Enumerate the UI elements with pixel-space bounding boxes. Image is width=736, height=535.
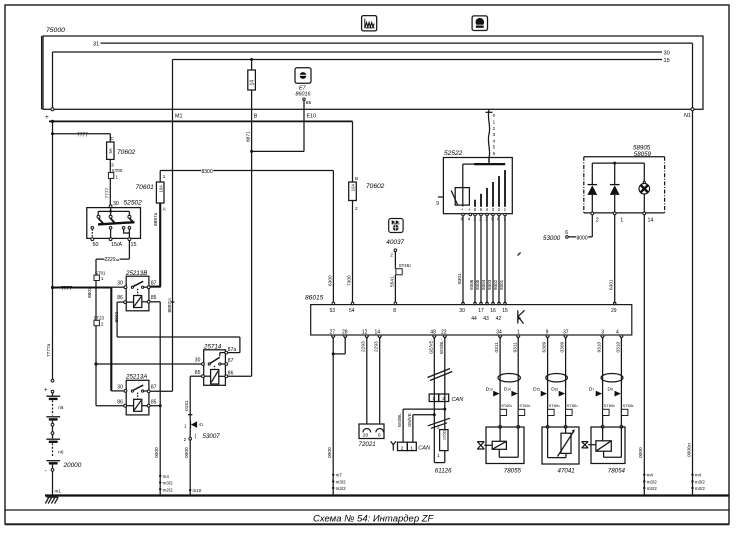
svg-text:87a: 87a	[228, 347, 237, 353]
svg-text:m3/2: m3/2	[647, 479, 658, 484]
svg-text:8871: 8871	[246, 131, 252, 142]
svg-text:m4: m4	[163, 474, 170, 479]
svg-text:27: 27	[330, 329, 336, 335]
svg-text:86: 86	[117, 295, 123, 301]
pins 50 15/A 15 of 52502	[91, 238, 137, 248]
twisted pair mark (upper)	[428, 369, 453, 381]
svg-text:ST695: ST695	[604, 403, 615, 408]
node B	[250, 58, 258, 119]
svg-text:N1: N1	[684, 113, 691, 119]
harness box 75000	[42, 27, 703, 109]
node E10	[252, 100, 316, 151]
svg-text:29: 29	[611, 308, 617, 314]
junction 8802 node	[94, 362, 97, 365]
svg-text:m1: m1	[55, 489, 62, 494]
connector ST46/2	[396, 263, 411, 275]
svg-text:0000: 0000	[184, 447, 190, 458]
diode 53007	[184, 421, 221, 442]
svg-text:WS/BL-: WS/BL-	[439, 338, 444, 354]
wire 9311 (pin 1)	[512, 338, 518, 426]
ECU bottom pin connector arrows	[331, 336, 623, 339]
svg-text:72021: 72021	[359, 441, 376, 448]
svg-text:-: -	[45, 468, 47, 474]
svg-text:2: 2	[390, 253, 393, 258]
svg-text:22: 22	[441, 329, 447, 335]
svg-text:30: 30	[117, 281, 123, 287]
relay E7 86016	[295, 68, 311, 98]
svg-text:87: 87	[228, 358, 234, 364]
svg-text:0311: 0311	[494, 342, 500, 353]
ECU top pin labels 53 54 8 30 17 16 15 44 43 42 29	[330, 308, 617, 322]
wire 8301	[457, 216, 463, 303]
twisted pair mark (lower)	[428, 418, 450, 428]
svg-text:7777a: 7777a	[46, 343, 52, 357]
svg-text:m10: m10	[193, 488, 202, 493]
wire 5541 to ECU pin 8	[389, 275, 395, 304]
antenna symbol	[391, 441, 396, 450]
retarder switch 52522	[436, 150, 512, 214]
svg-text:9304: 9304	[481, 279, 486, 290]
svg-text:m2/2: m2/2	[336, 486, 347, 491]
svg-text:8: 8	[393, 308, 396, 314]
svg-text:m3/2: m3/2	[695, 479, 706, 484]
52522 bottom terminals	[461, 213, 507, 221]
svg-text:120Ω: 120Ω	[442, 430, 447, 440]
svg-text:CAN: CAN	[418, 445, 431, 451]
svg-text:6: 6	[565, 230, 568, 236]
svg-text:15: 15	[131, 242, 137, 248]
wire fuse14 to rail	[251, 90, 253, 121]
relay 25714	[195, 344, 237, 386]
pins 2 1 14 of 58905	[591, 212, 654, 224]
sensor 72021	[359, 424, 385, 448]
wire 9302	[493, 216, 499, 303]
wire 9303	[487, 216, 493, 303]
wire 6300 to ECU pin 53	[327, 171, 333, 304]
svg-text:40037: 40037	[386, 239, 404, 246]
svg-text:8802: 8802	[87, 287, 93, 298]
svg-text:61126: 61126	[435, 468, 452, 475]
diode D7	[589, 387, 602, 397]
wire 2229aa	[96, 241, 129, 276]
svg-text:m2/2: m2/2	[695, 486, 706, 491]
svg-text:15: 15	[664, 58, 670, 64]
wire to relay 25714 pin 30	[96, 363, 203, 365]
svg-text:86016: 86016	[296, 91, 311, 97]
svg-text:53007: 53007	[203, 433, 221, 440]
svg-text:53000: 53000	[543, 235, 561, 242]
node + (battery feed from box)	[45, 52, 54, 121]
svg-text:31: 31	[93, 42, 99, 48]
cable to switch 52522 (wires 0-6)	[486, 110, 496, 163]
wire 8887/23 (M1 column)	[151, 121, 175, 391]
svg-text:15: 15	[502, 308, 508, 314]
svg-text:6309: 6309	[542, 341, 548, 352]
wire 0310 (pin 4)	[616, 338, 622, 426]
svg-text:1: 1	[410, 445, 413, 451]
svg-text:47041: 47041	[558, 468, 575, 475]
wire GE/VE (pin 48)	[428, 338, 434, 462]
ECU top pin terminals	[332, 302, 616, 305]
svg-text:48: 48	[430, 329, 436, 335]
wire 9304	[481, 216, 487, 303]
svg-text:9310: 9310	[597, 341, 603, 352]
svg-text:1: 1	[184, 423, 187, 428]
svg-text:m4: m4	[695, 473, 702, 478]
svg-text:ST691: ST691	[501, 403, 512, 408]
wire 0000/23 N1 column to ground	[686, 111, 692, 496]
svg-text:0000: 0000	[327, 447, 333, 458]
svg-text:28: 28	[342, 329, 348, 335]
svg-text:3: 3	[601, 329, 604, 335]
svg-text:1: 1	[437, 453, 440, 458]
wire 2293 (pin 12)	[361, 338, 367, 424]
wire 0000 from lamp pin 14 to ground	[638, 215, 644, 496]
svg-text:1: 1	[163, 174, 166, 179]
svg-text:14: 14	[250, 80, 256, 86]
svg-text:14: 14	[648, 217, 654, 223]
node m10	[193, 488, 202, 493]
diode D14	[504, 387, 518, 397]
svg-text:ST00: ST00	[112, 168, 123, 173]
connector ST69/2	[518, 403, 531, 416]
connector ST23 pin 2	[94, 315, 105, 326]
wire 9305	[475, 216, 481, 303]
svg-text:52522: 52522	[444, 150, 463, 157]
proportional valve 47041	[542, 425, 579, 474]
wire 0311 (pin 34)	[494, 338, 500, 426]
fuse 14	[248, 70, 256, 90]
svg-text:85: 85	[151, 295, 157, 301]
svg-text:20: 20	[363, 433, 369, 439]
ground marks m7 m3/2 m2/2	[332, 473, 346, 492]
svg-text:30: 30	[113, 201, 119, 207]
wire to relay 25213A pin 86	[96, 364, 124, 406]
main supply rail	[49, 120, 353, 123]
svg-text:86: 86	[117, 399, 123, 405]
ground marks m4 m3/2 m2/2 (N1 column)	[691, 473, 705, 492]
ground marks m4 m3/2 m2/2 (lamp column)	[643, 473, 657, 492]
wire 8871 into 25714 pin 86	[228, 375, 252, 377]
relay 25213B	[117, 270, 156, 311]
connector ST69/1	[500, 403, 513, 416]
wire 9310 (pin 3)	[597, 338, 603, 426]
svg-text:+: +	[45, 114, 49, 121]
svg-text:9311: 9311	[512, 342, 518, 353]
icon module (horn/black disc)	[472, 16, 487, 31]
svg-text:ST01: ST01	[95, 270, 106, 275]
connector CAN pins 1 2	[429, 394, 464, 403]
wire 0000 from pins 27/28	[327, 338, 345, 495]
svg-text:8301: 8301	[457, 273, 463, 284]
caption: Схема № 54: Интардер ZF	[313, 514, 435, 525]
svg-text:9303: 9303	[487, 279, 492, 290]
svg-text:ST462: ST462	[399, 263, 412, 268]
fuse 70602 (right)	[349, 121, 385, 211]
svg-text:⟨: ⟨	[194, 434, 196, 440]
svg-text:70602: 70602	[366, 183, 385, 190]
svg-text:0310: 0310	[616, 341, 622, 352]
svg-text:70602: 70602	[117, 149, 136, 156]
node m1	[55, 489, 62, 494]
svg-text:9: 9	[546, 329, 549, 335]
svg-text:ST694: ST694	[567, 403, 578, 408]
CAN socket boxes 2 1	[398, 442, 431, 451]
svg-text:25213A: 25213A	[125, 373, 147, 380]
svg-text:1: 1	[517, 329, 520, 335]
svg-text:44: 44	[471, 316, 477, 322]
ignition switch 52502	[87, 200, 142, 239]
svg-text:ST693: ST693	[549, 403, 560, 408]
wire 9301	[499, 216, 505, 303]
stub wire WS/BL to CAN socket 2	[397, 408, 446, 443]
svg-text:16: 16	[490, 308, 496, 314]
svg-text:9306: 9306	[469, 279, 474, 290]
svg-text:86015: 86015	[305, 295, 324, 302]
stray tick mark	[518, 252, 521, 255]
wire 8802 (switch to relays)	[87, 281, 96, 365]
svg-text:2: 2	[442, 396, 445, 402]
wire 7300 to ECU pin 54	[346, 201, 352, 304]
fuse 70601	[136, 174, 167, 211]
diode D15	[533, 387, 547, 397]
svg-text:4: 4	[616, 329, 619, 335]
svg-text:85: 85	[151, 399, 157, 405]
indicator lamp in 58905	[639, 163, 650, 213]
connector grommet (78054 pair)	[601, 374, 623, 382]
solenoid valve 78055	[477, 425, 524, 474]
connector ST69/6	[621, 403, 634, 416]
svg-text:87: 87	[151, 281, 157, 287]
svg-text:4: 4	[468, 217, 471, 222]
svg-text:8300: 8300	[202, 169, 213, 175]
ECU bottom pin labels 27 28 12 14 48 22 34 1 9 37 3 4	[330, 329, 620, 335]
svg-text:75000: 75000	[46, 27, 65, 34]
node N1	[684, 108, 694, 119]
wire 8887a	[150, 203, 161, 287]
connector ST69/3	[548, 403, 561, 416]
svg-text:50: 50	[93, 242, 99, 248]
svg-text:37: 37	[563, 329, 569, 335]
svg-text:0151: 0151	[184, 400, 190, 411]
svg-text:CAN: CAN	[452, 397, 465, 403]
svg-text:9: 9	[436, 201, 439, 207]
pin 2 of 40037	[390, 249, 396, 269]
svg-text:m2/2: m2/2	[647, 486, 658, 491]
svg-text:B: B	[254, 113, 258, 119]
ground bus	[45, 494, 729, 496]
svg-text:70601: 70601	[136, 184, 155, 191]
svg-text:34: 34	[496, 329, 502, 335]
svg-text:B: B	[355, 176, 358, 181]
wire 0151 from 25714 pin 85	[184, 376, 202, 420]
ECU 86015	[305, 295, 632, 335]
diode D16	[551, 387, 565, 397]
svg-text:m7: m7	[336, 473, 343, 478]
svg-text:¢1: ¢1	[199, 422, 204, 427]
svg-text:WS/BL: WS/BL	[397, 413, 402, 427]
connector ST01 pin 1	[94, 270, 106, 281]
connector ST69/4	[566, 403, 579, 416]
svg-text:7300: 7300	[346, 275, 352, 286]
svg-text:9301: 9301	[499, 279, 504, 290]
connector ST00 pin 1	[108, 168, 122, 180]
svg-text:86: 86	[228, 371, 234, 377]
svg-text:7777: 7777	[77, 132, 88, 138]
wire 6301 to ECU pin 29	[609, 215, 615, 303]
svg-text:6: 6	[378, 433, 381, 439]
diode D8	[608, 387, 621, 397]
pin 85 of E7	[303, 98, 312, 106]
svg-text:2293: 2293	[374, 341, 380, 352]
svg-text:8887a: 8887a	[153, 212, 159, 226]
svg-text:12: 12	[362, 329, 368, 335]
wire 7777 to ignition switch	[104, 178, 110, 205]
svg-text:0309: 0309	[560, 341, 566, 352]
wire 7777a to battery	[46, 121, 53, 379]
svg-text:2: 2	[355, 206, 358, 211]
wire 31 (bus line)	[93, 42, 693, 109]
connector grommet (78055 pair)	[498, 374, 520, 382]
wire 0309 (pin 37)	[560, 338, 566, 426]
fuse 70602 (left)	[107, 142, 136, 173]
svg-text:+: +	[44, 387, 48, 393]
svg-text:ST692: ST692	[519, 403, 530, 408]
wire 0000 (coil ground column)	[150, 302, 162, 496]
connector ST69/5	[603, 403, 616, 416]
svg-text:0000: 0000	[638, 447, 644, 458]
svg-text:6301: 6301	[609, 279, 615, 290]
svg-text:1: 1	[620, 218, 623, 224]
svg-text:10A: 10A	[158, 185, 163, 193]
terminating resistor 120R (61126)	[434, 425, 452, 475]
svg-text:1: 1	[432, 396, 435, 402]
svg-text:Схема № 54: Интардер ZF: Схема № 54: Интардер ZF	[313, 514, 435, 525]
svg-text:ST696: ST696	[623, 403, 634, 408]
svg-text:0000: 0000	[154, 447, 160, 458]
svg-text:C: C	[111, 136, 115, 142]
diode D (middle) in 58905	[610, 163, 620, 213]
ground marks m4 m3/2 m2/2 (left column)	[159, 474, 173, 493]
svg-text:78055: 78055	[504, 468, 522, 475]
svg-text:GN/VE: GN/VE	[407, 413, 412, 427]
wire 6309 (pin 9)	[542, 338, 548, 426]
wire 8000 to node 53000	[543, 215, 592, 242]
svg-text:E10: E10	[307, 113, 317, 119]
svg-text:ST23: ST23	[94, 315, 105, 320]
wire 0000 from diode to ground	[184, 440, 191, 496]
svg-text:m3/2: m3/2	[163, 481, 174, 486]
wire 7777 battery branch (bold)	[51, 286, 124, 391]
ground symbol (hatched)	[45, 497, 58, 503]
diode D13	[486, 387, 500, 397]
svg-text:20000: 20000	[63, 462, 82, 469]
wire 7777 branch to fuse C	[51, 132, 115, 142]
icon module (waveform)	[362, 16, 377, 31]
svg-text:87: 87	[151, 385, 157, 391]
stub wire GN/VE to CAN socket 1	[407, 413, 436, 442]
svg-text:2: 2	[596, 218, 599, 224]
svg-text:78054: 78054	[608, 468, 626, 475]
svg-text:m2/2: m2/2	[163, 487, 174, 492]
svg-text:53: 53	[330, 308, 336, 314]
svg-text:15/A: 15/A	[111, 242, 122, 248]
svg-text:2293: 2293	[361, 341, 367, 352]
svg-text:6300: 6300	[327, 275, 333, 286]
wire 8300	[160, 169, 333, 182]
wire 8871	[246, 121, 254, 376]
wire 2293 (pin 14)	[374, 338, 380, 424]
svg-text:85: 85	[306, 100, 312, 106]
diode D (left) in 58905	[587, 163, 597, 213]
svg-text:10A: 10A	[351, 184, 356, 192]
svg-text:7777: 7777	[104, 187, 110, 198]
svg-text:30: 30	[195, 358, 201, 364]
wire 30 (bus line)	[53, 51, 670, 57]
svg-text:7777: 7777	[61, 286, 72, 292]
svg-text:17: 17	[478, 308, 484, 314]
wire 9306	[469, 216, 475, 303]
svg-text:m3/2: m3/2	[336, 479, 347, 484]
ECU internal key symbol	[518, 310, 525, 323]
svg-text:2: 2	[401, 445, 404, 451]
solenoid valve 78054	[582, 425, 626, 474]
svg-text:2: 2	[184, 437, 187, 442]
svg-text:30: 30	[459, 308, 465, 314]
wire 8802 from 25213B/86 to 25714/87a	[114, 302, 240, 353]
svg-text:2: 2	[437, 425, 440, 430]
svg-text:5A: 5A	[108, 148, 113, 153]
wire 15 (bus line)	[173, 58, 670, 64]
svg-text:85: 85	[195, 370, 201, 376]
svg-text:43: 43	[483, 316, 489, 322]
wire WS/BL (pin 22)	[439, 338, 445, 429]
svg-text:GE/VE-: GE/VE-	[428, 339, 433, 354]
svg-text:n6: n6	[58, 450, 64, 455]
svg-text:9302: 9302	[493, 279, 498, 290]
svg-text:M1: M1	[175, 113, 183, 119]
svg-text:8000: 8000	[577, 236, 588, 242]
relay 25213A	[117, 373, 160, 415]
svg-text:9305: 9305	[475, 279, 480, 290]
control unit 40037	[386, 219, 404, 246]
battery 20000	[44, 379, 82, 495]
svg-text:m4: m4	[647, 473, 654, 478]
node M1	[173, 60, 183, 122]
svg-text:n6: n6	[58, 405, 64, 410]
indicator module 58905 / 58059	[584, 144, 665, 213]
svg-text:30: 30	[117, 385, 123, 391]
svg-text:42: 42	[496, 316, 502, 322]
connector grommet (47041 pair)	[546, 374, 568, 382]
svg-text:52502: 52502	[124, 200, 143, 207]
svg-text:5541: 5541	[389, 276, 395, 287]
svg-text:14: 14	[375, 329, 381, 335]
svg-text:8802: 8802	[114, 311, 120, 322]
svg-text:30: 30	[664, 51, 670, 57]
svg-text:54: 54	[349, 308, 355, 314]
